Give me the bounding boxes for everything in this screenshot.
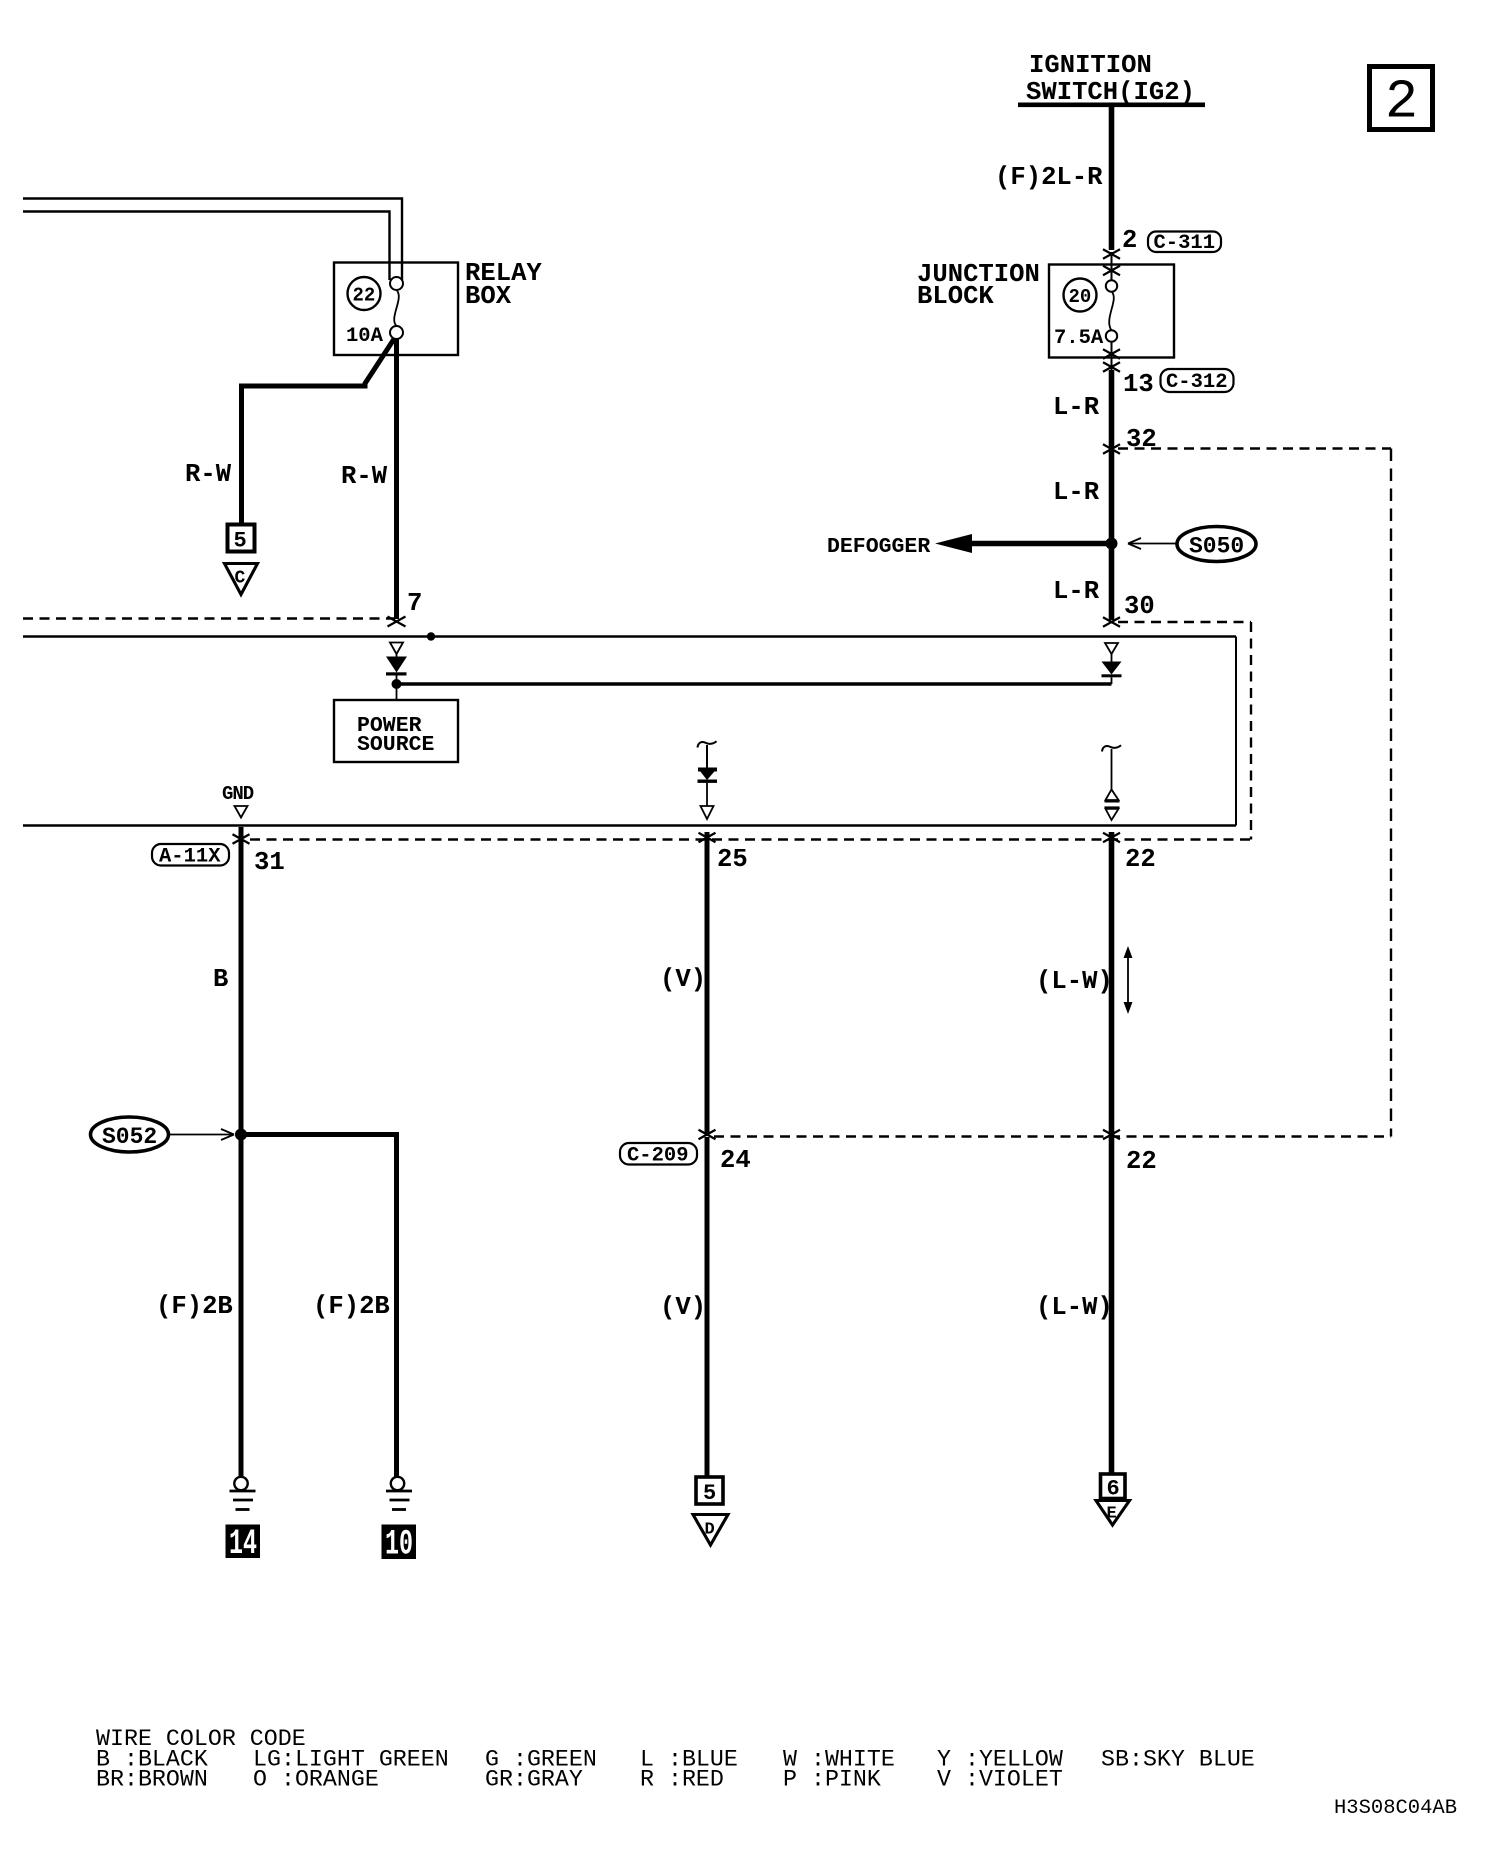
wire (V) middle column upper	[705, 832, 710, 1136]
crossing arrow at pin 31	[233, 834, 250, 844]
crossing arrow at pin 25	[699, 833, 716, 843]
splice S052 label	[91, 1117, 169, 1152]
supply wire lower	[23, 212, 390, 281]
svg-text:31: 31	[254, 848, 285, 877]
contact hook right	[1102, 745, 1121, 751]
svg-text:V :VIOLET: V :VIOLET	[937, 1767, 1063, 1793]
component box top edge	[23, 635, 1236, 637]
svg-text:R-W: R-W	[185, 460, 232, 489]
crossing arrow at pin 22	[1103, 833, 1120, 843]
supply wire upper	[23, 199, 402, 281]
wire (L-W) right column lower	[1109, 1137, 1115, 1474]
crossing arrow at pin 30 dashed boundary	[1103, 617, 1120, 627]
svg-text:2: 2	[1385, 71, 1418, 134]
svg-text:10: 10	[385, 1525, 413, 1565]
svg-text:S052: S052	[102, 1124, 157, 1150]
DEFOGGER branch arrow	[827, 534, 1113, 559]
connector crossing arrow at pin 2	[1103, 249, 1120, 259]
svg-text:D: D	[705, 1521, 715, 1540]
svg-text:20: 20	[1069, 286, 1092, 308]
svg-text:(F)2B: (F)2B	[156, 1292, 233, 1321]
page link triangle D	[693, 1515, 728, 1546]
svg-text:6: 6	[1107, 1477, 1120, 1502]
svg-text:7.5A: 7.5A	[1054, 327, 1104, 350]
svg-text:13: 13	[1123, 370, 1154, 399]
svg-text:BLOCK: BLOCK	[917, 282, 994, 311]
POWER SOURCE box	[334, 700, 458, 762]
splice junction dot S050	[1106, 538, 1118, 550]
page number box 2	[1370, 67, 1433, 134]
connector gap symbol right column	[1105, 749, 1120, 820]
crossing arrow at pin 22 lower	[1103, 1130, 1120, 1140]
branch wire to second ground	[241, 1135, 397, 1478]
GND label	[222, 783, 254, 818]
svg-text:(V): (V)	[660, 1293, 706, 1322]
relay box	[334, 263, 458, 356]
wire (L-W) right column upper	[1109, 832, 1115, 1136]
svg-text:C: C	[235, 569, 246, 589]
ground G1	[230, 1477, 256, 1510]
terminal 6 box right column	[1101, 1474, 1126, 1502]
exit arrow triangle middle	[701, 806, 714, 819]
dashed boundary stub right of pin 30	[1118, 621, 1251, 623]
svg-text:22: 22	[353, 285, 376, 307]
svg-text:B: B	[213, 965, 228, 994]
connector A-11X	[152, 844, 229, 869]
svg-text:R :RED: R :RED	[640, 1767, 724, 1793]
fuse number circle 22	[348, 277, 381, 310]
dashed harness boundary right vertical	[1390, 449, 1392, 1137]
junction dot internal bus	[392, 679, 402, 689]
svg-text:GND: GND	[222, 783, 254, 805]
svg-text:SOURCE: SOURCE	[357, 733, 435, 757]
svg-text:(L-W): (L-W)	[1036, 967, 1113, 996]
fuse number circle 20	[1064, 279, 1097, 312]
svg-text:L-R: L-R	[1053, 393, 1100, 422]
ground reference box 10	[382, 1525, 417, 1565]
page link triangle E	[1096, 1501, 1130, 1526]
crossing arrow at pin 32 dashed boundary	[1103, 444, 1120, 454]
svg-text:25: 25	[717, 845, 748, 874]
svg-text:E: E	[1107, 1505, 1117, 1524]
terminal 5 box middle column	[696, 1477, 723, 1506]
svg-text:5: 5	[234, 529, 247, 554]
svg-text:24: 24	[720, 1146, 751, 1175]
ground G2	[386, 1477, 412, 1510]
component box bottom edge	[23, 824, 1236, 826]
dashed harness boundary bottom	[250, 838, 1251, 840]
wire L-R down to dashed boundary	[1109, 370, 1115, 448]
wire R-W down from fuse	[394, 338, 399, 619]
splice S050 label	[1177, 527, 1256, 562]
svg-text:2: 2	[1122, 226, 1137, 255]
svg-text:O :ORANGE: O :ORANGE	[253, 1767, 379, 1793]
svg-text:DEFOGGER: DEFOGGER	[827, 535, 930, 559]
connector C-311	[1148, 232, 1221, 256]
svg-text:SB:SKY BLUE: SB:SKY BLUE	[1101, 1747, 1255, 1773]
svg-text:(V): (V)	[660, 965, 706, 994]
splice S052 pointer arrow	[169, 1129, 234, 1140]
connector C-209	[620, 1143, 697, 1168]
svg-text:7: 7	[407, 589, 422, 618]
RELAY BOX label	[465, 259, 542, 311]
svg-text:R-W: R-W	[341, 462, 388, 491]
svg-text:GR:GRAY: GR:GRAY	[485, 1767, 583, 1793]
svg-text:C-311: C-311	[1154, 232, 1216, 255]
terminal 5 box	[228, 525, 255, 554]
diode D1 (left)	[386, 654, 407, 680]
svg-text:L-R: L-R	[1053, 478, 1100, 507]
svg-text:C-312: C-312	[1166, 371, 1228, 394]
wire B ground column	[239, 827, 244, 1477]
svg-text:(F)2B: (F)2B	[313, 1292, 390, 1321]
wire L-R to splice S050	[1109, 448, 1115, 620]
svg-text:H3S08C04AB: H3S08C04AB	[1334, 1797, 1457, 1820]
svg-text:BOX: BOX	[465, 282, 512, 311]
connector crossing arrow at junction block top	[1103, 266, 1120, 276]
dashed boundary inner vertical	[1250, 622, 1252, 840]
connector crossing arrow at junction block bottom	[1103, 349, 1120, 359]
svg-text:30: 30	[1124, 592, 1155, 621]
svg-text:IGNITION: IGNITION	[1029, 51, 1152, 80]
svg-text:14: 14	[229, 1524, 257, 1564]
wire R-W branch to terminal 5	[242, 339, 395, 525]
diode D3 (middle column)	[698, 745, 718, 806]
JUNCTION BLOCK label	[917, 260, 1040, 311]
splice S050 pointer arrow	[1128, 538, 1177, 549]
dashed harness boundary left	[23, 617, 395, 619]
svg-text:L-R: L-R	[1053, 577, 1100, 606]
contact hook middle	[698, 741, 717, 747]
stub to power source box	[396, 684, 398, 700]
internal bus wire	[397, 682, 1112, 686]
component box right edge	[1235, 637, 1237, 826]
fuse 7.5A symbol	[1054, 280, 1117, 350]
svg-text:C-209: C-209	[627, 1145, 689, 1168]
ignition switch bus bar	[1018, 103, 1205, 108]
dashed harness boundary top right	[1118, 447, 1391, 449]
svg-text:(L-W): (L-W)	[1036, 1293, 1113, 1322]
svg-text:22: 22	[1126, 1147, 1157, 1176]
svg-text:22: 22	[1125, 845, 1156, 874]
connector C-312	[1161, 369, 1234, 394]
entry arrow triangle left diode	[390, 643, 403, 655]
bidirectional arrow	[1124, 946, 1133, 1014]
diode D2 (right)	[1102, 654, 1122, 684]
wire (V) middle column lower	[705, 1137, 710, 1477]
svg-text:5: 5	[703, 1481, 716, 1506]
svg-text:P :PINK: P :PINK	[783, 1767, 881, 1793]
svg-text:10A: 10A	[346, 325, 384, 348]
ground reference box 14	[226, 1524, 261, 1564]
dashed harness boundary at C-209	[714, 1135, 1391, 1137]
junction block box	[1049, 265, 1174, 358]
wire into junction block	[1111, 252, 1113, 281]
page link triangle C	[225, 564, 258, 595]
entry arrow triangle right diode	[1105, 643, 1118, 654]
svg-text:BR:BROWN: BR:BROWN	[96, 1767, 208, 1793]
crossing arrow at pin 24	[699, 1130, 716, 1140]
wire ignition switch to connector C-311	[1109, 105, 1115, 250]
splice junction dot S052	[235, 1129, 247, 1141]
crossing arrow at pin 7 dashed boundary	[388, 617, 406, 627]
junction dot on top edge	[427, 632, 435, 640]
svg-text:S050: S050	[1189, 534, 1244, 560]
connector crossing arrow at pin 13	[1103, 362, 1120, 372]
svg-text:(F)2L-R: (F)2L-R	[995, 163, 1103, 192]
node IGNITION SWITCH(IG2) label	[1026, 51, 1195, 107]
wire out of fuse	[1111, 342, 1113, 373]
svg-text:A-11X: A-11X	[159, 846, 221, 869]
fuse 10A symbol	[346, 277, 403, 348]
